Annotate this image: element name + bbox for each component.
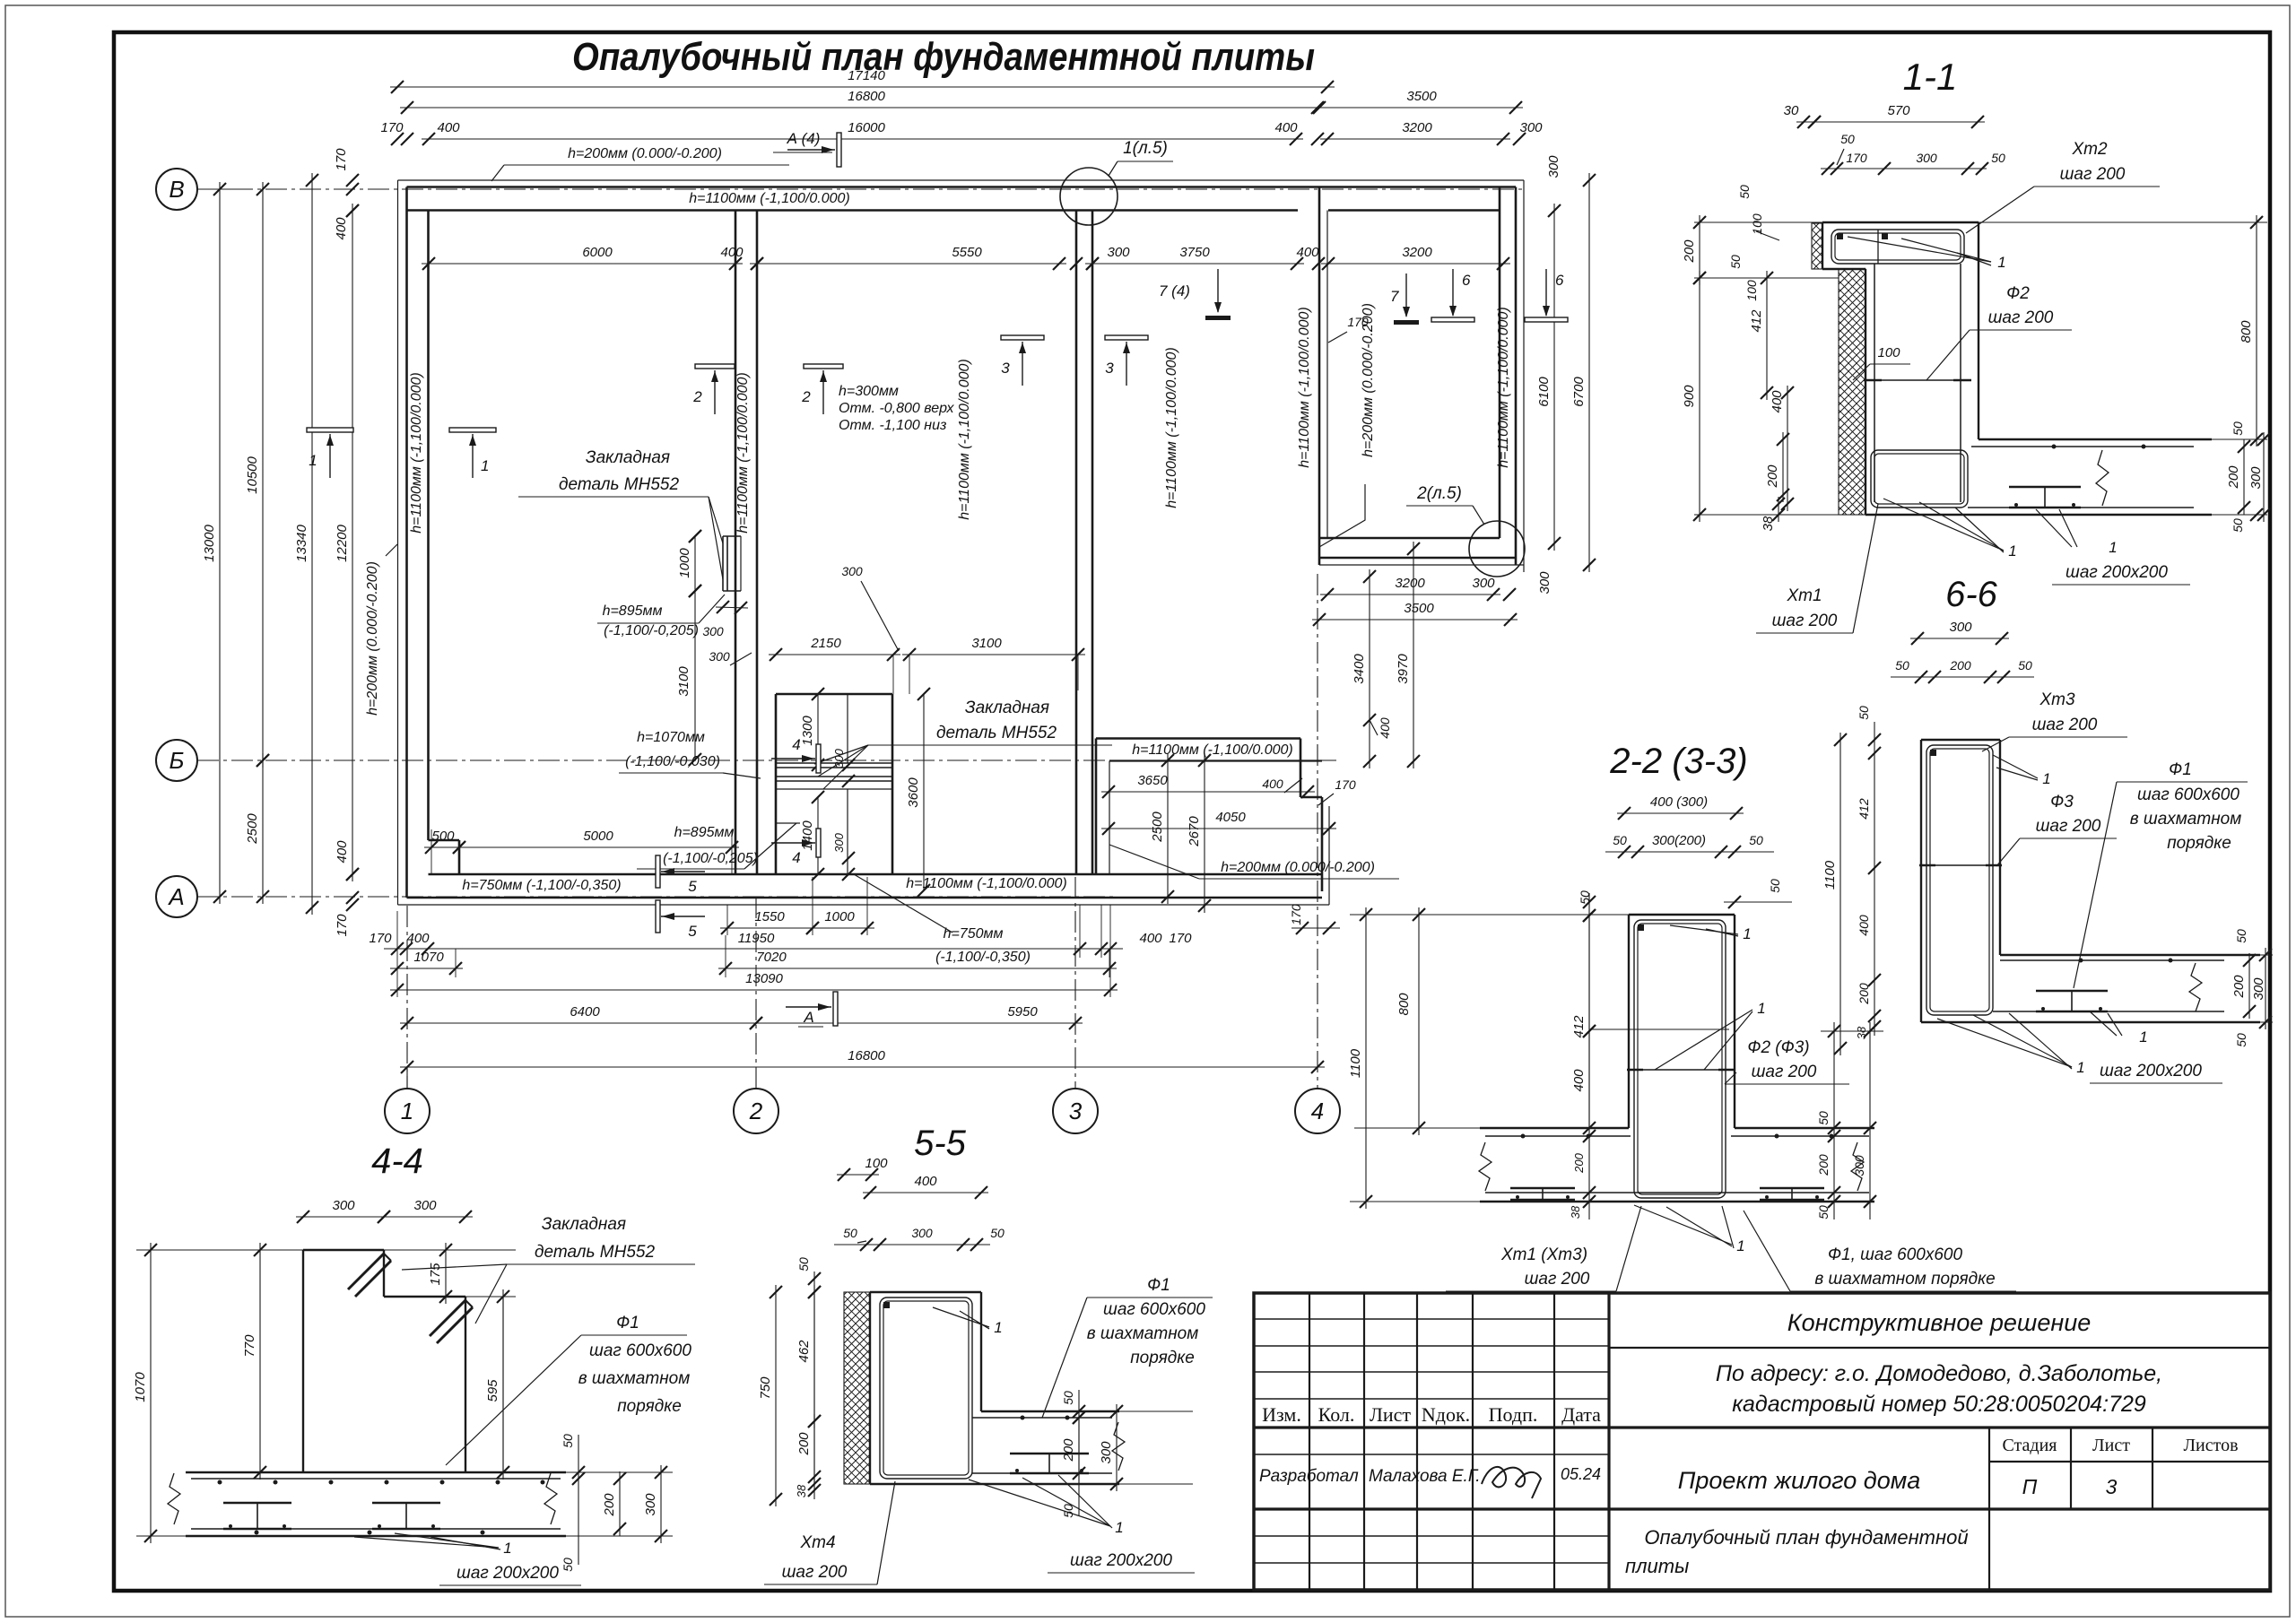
svg-text:300: 300 [832,748,846,768]
svg-text:шаг 600х600: шаг 600х600 [2137,785,2239,804]
svg-text:50: 50 [2231,421,2245,436]
svg-text:(-1,100/-0,205): (-1,100/-0,205) [604,623,699,638]
svg-text:6: 6 [1462,272,1471,289]
svg-text:7 (4): 7 (4) [1159,282,1190,299]
svg-text:h=200мм (0.000/-0.200): h=200мм (0.000/-0.200) [1221,860,1375,875]
svg-text:50: 50 [1895,658,1909,673]
svg-text:100: 100 [865,1156,888,1171]
svg-text:300: 300 [1519,120,1543,135]
svg-text:h=1100мм (-1,100/0.000): h=1100мм (-1,100/0.000) [1496,307,1511,468]
svg-text:300: 300 [2248,466,2264,490]
svg-text:Закладная: Закладная [542,1215,626,1234]
svg-text:Опалубочный план фундаментной: Опалубочный план фундаментной плиты [572,35,1315,79]
svg-text:А: А [167,883,184,910]
svg-text:(-1,100/-0,030): (-1,100/-0,030) [625,754,720,769]
svg-text:200: 200 [2226,465,2241,490]
svg-text:300(200): 300(200) [1652,833,1706,848]
svg-text:3500: 3500 [1406,89,1437,104]
svg-text:50: 50 [1768,879,1782,893]
svg-text:Отм. -0,800 верх: Отм. -0,800 верх [839,401,955,416]
svg-text:170: 170 [1846,151,1867,165]
svg-text:По адресу: г.о. Домодедово, д.: По адресу: г.о. Домодедово, д.Заболотье, [1716,1361,2162,1386]
svg-text:6-6: 6-6 [1945,575,1998,614]
svg-text:30: 30 [1784,103,1799,118]
svg-text:h=750мм: h=750мм [944,926,1004,942]
svg-text:шаг 600х600: шаг 600х600 [589,1341,691,1360]
svg-text:шаг 200: шаг 200 [2036,817,2101,836]
svg-text:300: 300 [1099,1441,1114,1464]
svg-text:50: 50 [796,1257,811,1271]
svg-text:50: 50 [1816,1205,1831,1219]
svg-text:400: 400 [914,1174,937,1189]
svg-text:170: 170 [369,931,392,946]
svg-text:h=1100мм (-1,100/0.000): h=1100мм (-1,100/0.000) [906,876,1067,891]
svg-text:50: 50 [561,1434,575,1448]
svg-text:50: 50 [1857,706,1871,720]
svg-text:50: 50 [1061,1504,1075,1518]
svg-text:Лист: Лист [2092,1436,2130,1455]
svg-text:1: 1 [2109,539,2117,556]
svg-text:400: 400 [1274,120,1298,135]
svg-text:200: 200 [1682,239,1697,264]
svg-text:(-1,100/-0,205): (-1,100/-0,205) [663,851,758,866]
svg-text:h=1100мм (-1,100/0.000): h=1100мм (-1,100/0.000) [1297,307,1312,468]
svg-text:17140: 17140 [848,68,885,83]
svg-text:400: 400 [406,931,430,946]
svg-text:1100: 1100 [1348,1048,1363,1078]
svg-text:А (4): А (4) [787,130,821,147]
svg-text:1550: 1550 [754,909,785,924]
svg-text:38: 38 [795,1484,808,1497]
svg-text:300: 300 [709,649,730,664]
svg-text:шаг 200х200: шаг 200х200 [457,1564,559,1583]
svg-text:200: 200 [602,1493,617,1517]
svg-text:412: 412 [1857,798,1871,820]
svg-text:3100: 3100 [971,636,1002,651]
svg-text:300: 300 [1949,620,1972,635]
svg-text:50: 50 [1991,151,2005,165]
svg-text:2500: 2500 [245,813,260,845]
svg-text:50: 50 [1061,1391,1075,1405]
svg-text:50: 50 [1728,255,1743,269]
svg-text:Подп.: Подп. [1489,1403,1538,1426]
svg-text:1: 1 [1997,254,2005,271]
svg-text:2670: 2670 [1187,816,1202,847]
svg-text:50: 50 [2234,929,2248,943]
svg-text:в шахматном: в шахматном [2130,810,2242,829]
svg-text:h=1100мм (-1,100/0.000): h=1100мм (-1,100/0.000) [957,359,972,520]
svg-text:500: 500 [431,829,455,844]
svg-text:200: 200 [1765,464,1780,489]
svg-text:3500: 3500 [1404,601,1434,616]
svg-text:шаг 600х600: шаг 600х600 [1103,1300,1205,1319]
svg-text:h=1100мм (-1,100/0.000): h=1100мм (-1,100/0.000) [409,372,424,534]
svg-text:50: 50 [561,1558,575,1572]
svg-text:5950: 5950 [1007,1004,1038,1020]
svg-text:1100: 1100 [1822,860,1838,890]
svg-text:10500: 10500 [245,456,260,493]
svg-text:Листов: Листов [2183,1436,2238,1455]
svg-text:3: 3 [1069,1098,1083,1124]
svg-text:170: 170 [380,120,404,135]
svg-text:шаг 200: шаг 200 [2032,716,2098,734]
svg-text:порядке: порядке [617,1397,682,1416]
svg-text:h=300мм: h=300мм [839,384,899,399]
svg-text:Ф3: Ф3 [2050,793,2074,811]
svg-text:шаг 200: шаг 200 [2060,165,2126,184]
svg-text:1000: 1000 [824,909,855,924]
svg-text:300: 300 [1107,245,1130,260]
svg-text:13340: 13340 [294,524,309,561]
svg-text:в шахматном: в шахматном [578,1369,691,1388]
svg-text:3600: 3600 [906,777,921,808]
svg-text:200: 200 [1572,1152,1586,1173]
svg-text:750: 750 [758,1376,773,1400]
svg-text:3100: 3100 [676,666,691,697]
svg-text:170: 170 [1335,777,1356,792]
svg-text:Проект жилого дома: Проект жилого дома [1678,1467,1921,1494]
svg-text:Лист: Лист [1370,1403,1411,1426]
svg-text:h=750мм (-1,100/-0,350): h=750мм (-1,100/-0,350) [462,878,621,893]
svg-text:6: 6 [1555,272,1564,289]
svg-text:3650: 3650 [1137,773,1168,788]
svg-text:5: 5 [688,923,697,940]
svg-text:1: 1 [2139,1028,2147,1046]
svg-text:50: 50 [843,1226,857,1240]
svg-text:11950: 11950 [738,931,775,946]
svg-text:Б: Б [170,747,185,774]
svg-text:200: 200 [1816,1154,1831,1176]
svg-text:300: 300 [1916,151,1937,165]
svg-text:Малахова Е.Г.: Малахова Е.Г. [1369,1467,1481,1486]
svg-text:Стадия: Стадия [2002,1436,2057,1455]
svg-text:h=200мм (0.000/-0.200): h=200мм (0.000/-0.200) [568,146,722,161]
svg-text:шаг 200х200: шаг 200х200 [1070,1551,1172,1570]
svg-text:800: 800 [1396,993,1412,1016]
svg-text:800: 800 [2239,320,2254,343]
svg-text:900: 900 [1682,385,1697,408]
svg-text:595: 595 [485,1379,500,1402]
svg-text:462: 462 [796,1340,812,1363]
svg-text:(-1,100/-0,350): (-1,100/-0,350) [935,950,1031,965]
svg-text:4: 4 [792,849,800,866]
svg-text:100: 100 [1877,345,1900,360]
svg-text:1: 1 [2008,542,2016,560]
svg-text:50: 50 [2234,1033,2248,1047]
svg-text:412: 412 [1571,1015,1587,1038]
svg-text:6400: 6400 [570,1004,600,1020]
svg-text:Хт3: Хт3 [2039,690,2075,709]
svg-text:Кол.: Кол. [1318,1403,1355,1426]
svg-text:16800: 16800 [848,1048,885,1063]
svg-text:Ф1: Ф1 [1147,1276,1170,1295]
svg-text:1-1: 1-1 [1903,56,1958,98]
svg-text:6700: 6700 [1571,377,1587,407]
svg-text:400: 400 [1770,390,1785,413]
svg-text:2: 2 [749,1098,763,1124]
svg-text:h=1100мм (-1,100/0.000): h=1100мм (-1,100/0.000) [1164,347,1179,508]
svg-text:170: 170 [1169,931,1192,946]
svg-text:300: 300 [332,1198,355,1213]
svg-text:деталь МН552: деталь МН552 [559,475,679,494]
svg-text:200: 200 [1857,983,1871,1005]
svg-text:шаг 200: шаг 200 [1752,1063,1817,1081]
svg-text:300: 300 [1852,1155,1866,1176]
svg-text:50: 50 [1749,833,1763,847]
svg-text:3200: 3200 [1402,245,1432,260]
svg-text:1: 1 [994,1319,1002,1336]
svg-text:3750: 3750 [1179,245,1210,260]
svg-text:6000: 6000 [582,245,613,260]
svg-text:Ф2 (Ф3): Ф2 (Ф3) [1747,1038,1809,1057]
svg-text:50: 50 [1816,1111,1831,1125]
svg-text:1: 1 [1757,1000,1765,1017]
svg-text:Хт2: Хт2 [2071,140,2108,159]
svg-text:170: 170 [1289,904,1303,925]
svg-text:шаг 200: шаг 200 [782,1563,848,1582]
svg-text:3400: 3400 [1352,654,1367,684]
svg-text:13000: 13000 [202,524,217,561]
svg-text:1: 1 [503,1540,511,1557]
svg-text:38: 38 [1855,1026,1868,1039]
svg-text:П: П [2022,1475,2038,1498]
svg-text:шаг 200: шаг 200 [1988,308,2054,327]
svg-text:Изм.: Изм. [1262,1403,1301,1426]
svg-text:3200: 3200 [1395,576,1425,591]
svg-text:400: 400 [437,120,460,135]
svg-text:300: 300 [911,1226,933,1240]
svg-text:1: 1 [309,452,317,469]
svg-text:h=1070мм: h=1070мм [637,730,705,745]
svg-text:Хт4: Хт4 [799,1533,835,1552]
svg-text:плиты: плиты [1625,1555,1689,1577]
svg-text:5-5: 5-5 [914,1124,967,1163]
svg-text:400: 400 [1571,1069,1587,1092]
svg-text:1(л.5): 1(л.5) [1123,139,1168,158]
svg-text:50: 50 [1840,132,1855,146]
svg-text:300: 300 [2251,977,2266,1001]
svg-text:2-2 (3-3): 2-2 (3-3) [1609,742,1747,781]
svg-text:3: 3 [1105,360,1114,377]
svg-text:50: 50 [1737,185,1752,199]
svg-text:3970: 3970 [1396,654,1411,684]
svg-text:16000: 16000 [848,120,885,135]
svg-text:300: 300 [702,624,724,638]
svg-text:Ф1: Ф1 [616,1314,639,1332]
svg-text:50: 50 [990,1226,1004,1240]
svg-text:В: В [169,176,184,203]
svg-text:50: 50 [2018,658,2032,673]
svg-text:16800: 16800 [848,89,885,104]
svg-text:2500: 2500 [1150,811,1165,843]
svg-text:400: 400 [1139,931,1162,946]
svg-text:5550: 5550 [952,245,982,260]
svg-text:Разработал: Разработал [1259,1467,1359,1486]
svg-text:2: 2 [692,388,702,405]
svg-text:300: 300 [1546,155,1561,178]
svg-text:7020: 7020 [756,950,787,965]
svg-text:100: 100 [1744,280,1759,301]
svg-text:h=895мм: h=895мм [603,603,663,619]
svg-text:400: 400 [1296,245,1319,260]
svg-text:7: 7 [1390,288,1399,305]
svg-text:200: 200 [796,1432,812,1456]
svg-text:3200: 3200 [1402,120,1432,135]
svg-text:3: 3 [1001,360,1010,377]
svg-text:175: 175 [428,1263,443,1286]
svg-text:1: 1 [1743,925,1751,942]
svg-text:6100: 6100 [1536,377,1552,407]
svg-text:400: 400 [335,840,350,864]
svg-text:38: 38 [1761,516,1776,531]
svg-text:4: 4 [792,736,800,753]
svg-text:200: 200 [2231,975,2247,999]
svg-text:770: 770 [242,1334,257,1358]
svg-text:Ф1: Ф1 [2169,760,2192,779]
svg-text:в шахматном: в шахматном [1087,1324,1199,1343]
svg-text:Опалубочный план фундаментной: Опалубочный план фундаментной [1644,1526,1968,1549]
svg-text:1000: 1000 [677,548,692,578]
svg-text:13090: 13090 [745,971,783,986]
svg-text:1: 1 [1736,1237,1744,1254]
svg-text:шаг 200х200: шаг 200х200 [2066,563,2168,582]
svg-text:412: 412 [1749,309,1764,333]
svg-text:1: 1 [481,457,489,474]
svg-text:300: 300 [643,1493,658,1516]
svg-text:05.24: 05.24 [1561,1465,1601,1483]
svg-text:Отм. -1,100 низ: Отм. -1,100 низ [839,418,946,433]
svg-text:1070: 1070 [413,950,444,965]
svg-text:Ф1, шаг 600х600: Ф1, шаг 600х600 [1828,1245,1963,1264]
svg-text:Хт1: Хт1 [1786,586,1822,605]
svg-text:шаг 200х200: шаг 200х200 [2100,1062,2202,1081]
svg-text:3: 3 [2106,1475,2118,1498]
svg-text:1: 1 [2076,1059,2084,1076]
svg-text:шаг 200: шаг 200 [1772,612,1838,630]
svg-text:в шахматном порядке: в шахматном порядке [1814,1270,1995,1289]
svg-text:h=200мм (0.000/-0.200): h=200мм (0.000/-0.200) [365,561,380,716]
svg-text:1: 1 [401,1098,413,1124]
svg-text:h=200мм (0.000/-0.200): h=200мм (0.000/-0.200) [1361,303,1376,457]
svg-text:170: 170 [334,148,349,171]
svg-text:Ф2: Ф2 [2006,284,2030,303]
svg-text:50: 50 [2231,518,2245,533]
svg-text:4050: 4050 [1215,810,1246,825]
svg-text:4: 4 [1311,1098,1324,1124]
svg-text:шаг 200: шаг 200 [1525,1270,1590,1289]
svg-text:300: 300 [1537,571,1552,595]
svg-text:Конструктивное решение: Конструктивное решение [1787,1309,2092,1336]
svg-text:5000: 5000 [583,829,613,844]
svg-text:570: 570 [1887,103,1910,118]
svg-text:Закладная: Закладная [586,448,670,467]
svg-text:1070: 1070 [133,1372,148,1402]
svg-text:400: 400 [1857,915,1871,936]
svg-text:Хт1 (Хт3): Хт1 (Хт3) [1500,1245,1587,1264]
svg-text:200: 200 [1061,1438,1076,1462]
svg-text:400: 400 [1262,777,1283,791]
svg-text:порядке: порядке [1130,1349,1195,1367]
svg-text:1: 1 [2042,770,2050,787]
svg-text:порядке: порядке [2167,834,2231,853]
svg-text:12200: 12200 [335,524,350,561]
svg-text:деталь МН552: деталь МН552 [936,724,1057,742]
svg-text:2150: 2150 [810,636,841,651]
svg-text:2(л.5): 2(л.5) [1416,484,1462,503]
svg-text:h=1100мм (-1,100/0.000): h=1100мм (-1,100/0.000) [1132,742,1293,758]
svg-text:кадастровый номер 50:28:005020: кадастровый номер 50:28:0050204:729 [1732,1392,2146,1417]
svg-text:2: 2 [801,388,811,405]
svg-text:h=1100мм (-1,100/0.000): h=1100мм (-1,100/0.000) [735,372,751,534]
svg-text:400: 400 [720,245,744,260]
svg-text:300: 300 [413,1198,437,1213]
svg-text:5: 5 [688,878,697,895]
svg-text:деталь МН552: деталь МН552 [535,1243,655,1262]
svg-text:50: 50 [1613,833,1627,847]
svg-text:200: 200 [1949,658,1971,673]
svg-text:Nдок.: Nдок. [1422,1403,1470,1426]
svg-text:h=1100мм (-1,100/0.000): h=1100мм (-1,100/0.000) [689,191,850,206]
svg-text:300: 300 [1472,576,1495,591]
svg-text:170: 170 [335,914,350,937]
svg-text:400: 400 [1378,717,1392,739]
svg-text:h=895мм: h=895мм [674,825,735,840]
svg-text:А: А [803,1009,813,1026]
svg-text:1: 1 [1115,1519,1123,1536]
svg-text:1300: 1300 [800,716,815,746]
svg-text:38: 38 [1569,1205,1582,1219]
svg-text:Закладная: Закладная [965,699,1049,717]
svg-text:300: 300 [841,564,863,578]
svg-text:400 (300): 400 (300) [1650,794,1708,810]
svg-text:4-4: 4-4 [371,1141,423,1181]
svg-text:300: 300 [832,832,846,852]
svg-text:400: 400 [334,217,349,240]
svg-text:Дата: Дата [1561,1403,1601,1426]
